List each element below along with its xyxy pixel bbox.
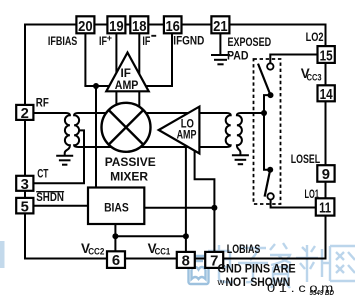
svg-text:LOBIAS: LOBIAS [227, 242, 260, 256]
wire RF pin2 + transformer T1 primary [34, 113, 70, 156]
svg-text:CC3: CC3 [307, 72, 322, 82]
svg-text:AMP: AMP [115, 78, 139, 92]
pin 6 [107, 251, 125, 269]
node switch pole upper [268, 92, 274, 98]
wire BIAS right to LOBIAS line [144, 207, 214, 209]
svg-text:3: 3 [21, 177, 29, 193]
svg-text:20: 20 [78, 19, 93, 35]
pin 19 [107, 16, 125, 35]
svg-text:BIAS: BIAS [104, 200, 129, 214]
svg-text:21: 21 [213, 19, 228, 35]
svg-text:14: 14 [320, 87, 334, 103]
block BIAS [88, 188, 144, 225]
wire center tap stub [79, 130, 84, 183]
switch blade lower [265, 170, 271, 197]
wire mixer right top to LO transformer [142, 112, 227, 114]
svg-text:LOSEL: LOSEL [291, 152, 321, 166]
wire LO2 pin15 to switch [270, 55, 317, 64]
pin 15 [318, 46, 335, 64]
char 1 [208, 245, 233, 282]
svg-text:PAD: PAD [227, 48, 249, 62]
wire IFBIAS horizontal to IF amp [84, 85, 113, 87]
svg-text:w: w [217, 277, 225, 288]
wire BIAS bottom to pin6 [114, 224, 116, 252]
wire pin21 to exposed pad ground [219, 33, 221, 55]
svg-text:CC1: CC1 [155, 247, 171, 257]
node junction VCC1 [183, 233, 189, 239]
wire pin19 IF+ drop [115, 33, 117, 80]
svg-text:LO2: LO2 [306, 30, 324, 44]
svg-text:NOT SHOWN: NOT SHOWN [226, 275, 291, 289]
svg-text:15: 15 [320, 48, 333, 64]
ground RF transformer [56, 156, 73, 165]
svg-text:PASSIVE: PASSIVE [105, 155, 156, 169]
watermark left edge fragment [0, 241, 5, 268]
wire CT pin3 [34, 182, 86, 184]
pin 11 [316, 198, 335, 216]
pin 5 [16, 198, 33, 215]
op-amp IF AMP [106, 53, 148, 92]
pin 3 [16, 176, 33, 193]
svg-text:CT: CT [37, 166, 48, 180]
mixer U1 passive mixer [102, 103, 151, 152]
IC package outline [25, 25, 326, 259]
pin 14 [318, 85, 335, 103]
svg-text:2: 2 [21, 106, 29, 122]
svg-text:GND PINS ARE: GND PINS ARE [218, 262, 296, 276]
pin 20 [76, 16, 94, 35]
svg-text:CC2: CC2 [88, 247, 104, 257]
wire bias bottom horizontal [115, 235, 185, 237]
svg-text:5: 5 [21, 199, 29, 215]
switch LOSEL dashed box [254, 59, 281, 204]
op-amp LO AMP [159, 107, 200, 154]
wire IF amp base to mixer right [138, 90, 140, 110]
ground LO transformer [232, 155, 249, 164]
svg-text:EXPOSED: EXPOSED [228, 35, 272, 49]
wire SHDN pin5 to BIAS [34, 205, 90, 207]
svg-text:16: 16 [165, 19, 180, 35]
node switch pole lower [267, 167, 273, 173]
svg-text:18: 18 [132, 19, 147, 35]
pin 21 [211, 16, 229, 35]
wire pin20 drop [84, 33, 86, 86]
watermark logo [189, 256, 209, 284]
char 2 [238, 248, 268, 282]
node junction IFBIAS [93, 83, 99, 89]
node junction VCC2 [112, 233, 118, 239]
svg-text:AMP: AMP [177, 127, 197, 141]
svg-text:5549 BD: 5549 BD [310, 290, 335, 295]
switch contact LO1 [267, 193, 273, 199]
pin 7 [205, 252, 223, 270]
wire mixer right bottom to LO transformer [140, 146, 227, 148]
svg-text:MIXER: MIXER [110, 170, 148, 184]
ground exposed pad [211, 55, 230, 64]
transformer T1 secondary top lead to mixer [74, 113, 112, 147]
wire IFBIAS vertical drop to BIAS [95, 86, 97, 188]
svg-text:IFGND: IFGND [173, 34, 204, 48]
pin 18 [130, 16, 148, 35]
wire pin18 IF- drop [138, 33, 140, 80]
svg-text:IF: IF [142, 34, 150, 48]
char 5 (partially cut) [330, 246, 355, 281]
node switch feed [261, 110, 267, 116]
wire LOBIAS from LO amp to pin7 [195, 142, 215, 252]
pin 9 [317, 165, 334, 183]
switch blade upper [258, 64, 271, 96]
watermark hanzi strokes [208, 243, 355, 288]
wire pin16 IFGND drop [142, 33, 173, 87]
transformer T2 secondary to switch pole [237, 113, 264, 155]
pin 8 [177, 252, 195, 270]
svg-text:9: 9 [322, 167, 330, 183]
wire VCC1 drop from LO amp to pin8 [185, 140, 187, 252]
node junction LOBIAS [211, 205, 217, 211]
pin 2 [16, 105, 33, 122]
char 4 [296, 245, 330, 282]
svg-text:6: 6 [112, 253, 120, 269]
wire LO1 from switch to pin11 [271, 200, 317, 208]
svg-text:+: + [107, 33, 112, 43]
svg-text:IFBIAS: IFBIAS [48, 34, 77, 48]
svg-text:LO1: LO1 [305, 187, 320, 201]
wire IF amp base to mixer left [115, 90, 117, 110]
svg-text:8: 8 [182, 254, 190, 270]
switch contact LO2 [267, 63, 273, 69]
pin 16 [164, 16, 182, 35]
transformer T2 primary from LO amp [199, 113, 231, 147]
char 3 [270, 243, 291, 288]
switch pole riser [264, 95, 271, 170]
svg-text:RF: RF [36, 95, 49, 109]
svg-text:11: 11 [319, 201, 331, 217]
